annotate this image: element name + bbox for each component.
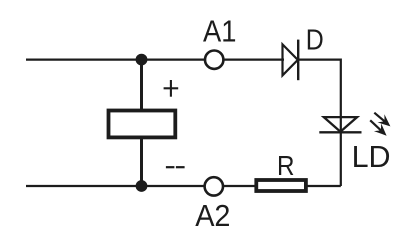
diode D: cathode bar — [297, 40, 299, 81]
wire: vertical branch through capacitor — [140, 60, 143, 186]
node: top junction — [136, 54, 148, 66]
svg-text:D: D — [306, 25, 324, 57]
diode D: anode triangle — [283, 44, 298, 75]
resistor R — [256, 180, 306, 191]
node: bottom junction — [136, 180, 148, 192]
label: + polarity mark — [164, 80, 179, 97]
svg-text:A2: A2 — [195, 198, 230, 233]
capacitor C1 (polarized, box symbol) — [109, 111, 176, 138]
LED light arrow 1 (upper) — [374, 113, 390, 127]
LED LD: cathode bar — [319, 131, 361, 133]
wire: diode cathode to top-right corner and down right side — [298, 60, 341, 186]
wire: top rail from left input to diode — [26, 58, 284, 60]
svg-text:R: R — [277, 150, 295, 181]
LED light arrow 2 (lower) — [370, 120, 386, 135]
LED LD: anode triangle (pointing down) — [324, 117, 357, 132]
svg-text:LD: LD — [352, 140, 391, 174]
terminal A2 — [205, 177, 223, 195]
label: - polarity mark — [166, 166, 185, 168]
terminal A1 — [205, 51, 223, 69]
wire: bottom rail from left input to right vertical — [26, 185, 341, 187]
svg-text:A1: A1 — [203, 14, 236, 49]
